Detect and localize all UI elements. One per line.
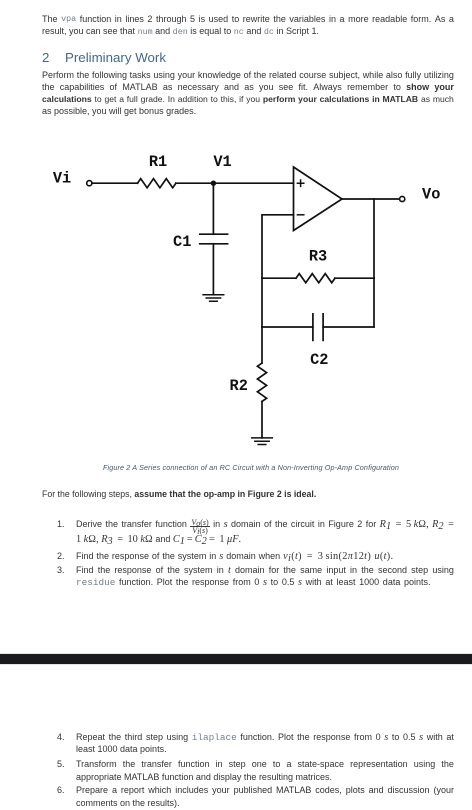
ground (under C1) [203,295,224,302]
label R1 [149,153,167,171]
svg-text:V1: V1 [213,153,231,171]
paragraph 1 line 2 [42,26,454,38]
label Vi [53,170,71,188]
ground (under R2) [252,438,273,445]
heading 2 [42,50,166,65]
paragraph 2 [42,70,454,81]
wire R3 row left [262,277,296,279]
svg-text:C2: C2 [310,351,328,369]
label R3 [309,248,327,266]
label C1 [173,233,191,251]
svg-text:R3: R3 [309,248,327,266]
resistor R2 [257,363,266,401]
circuit schematic figure [0,0,472,472]
wire Vi to R1 [92,182,137,184]
label R2 [230,377,248,395]
op-amp U1 [294,167,343,231]
label C2 [310,351,328,369]
svg-text:R2: R2 [230,377,248,395]
svg-text:R1: R1 [149,153,167,171]
wire R3 row right [335,277,374,279]
svg-text:Vo: Vo [422,186,440,204]
node Vi terminal [87,181,92,186]
svg-text:C1: C1 [173,233,191,251]
capacitor C1 [200,234,228,244]
label V1 [213,153,231,171]
label Vo [422,186,440,204]
list items 1-3 [57,519,65,530]
resistor R1 [138,179,176,188]
wire V1 down to C1 [212,183,214,234]
wire C2 row left [262,326,313,328]
wire op-amp output to Vo [342,198,399,200]
paragraph 1 line 1 [42,14,454,25]
svg-text:Vi: Vi [53,170,71,188]
wire left rail C2 to R2 [261,327,263,363]
wire right rail R3 to C2 [373,278,375,327]
wire output down right feedback rail [373,199,375,278]
wire V1 to op-amp + input [213,182,293,184]
wire R2 to ground [261,401,263,438]
node Vo terminal [400,196,405,201]
wire C1 to ground [212,244,214,295]
wire op-amp - input to left feedback rail [262,215,294,278]
wire left rail R3 to C2 [261,278,263,327]
resistor R3 [296,274,335,283]
wire R1 to node V1 [176,182,214,184]
dark page-separator band [0,654,472,664]
list items 4-6 [57,732,65,743]
node V1 junction dot [211,181,216,186]
wire C2 row right [323,326,374,328]
capacitor C2 [313,314,323,341]
for-the-following line [42,489,454,500]
figure caption [42,463,460,472]
